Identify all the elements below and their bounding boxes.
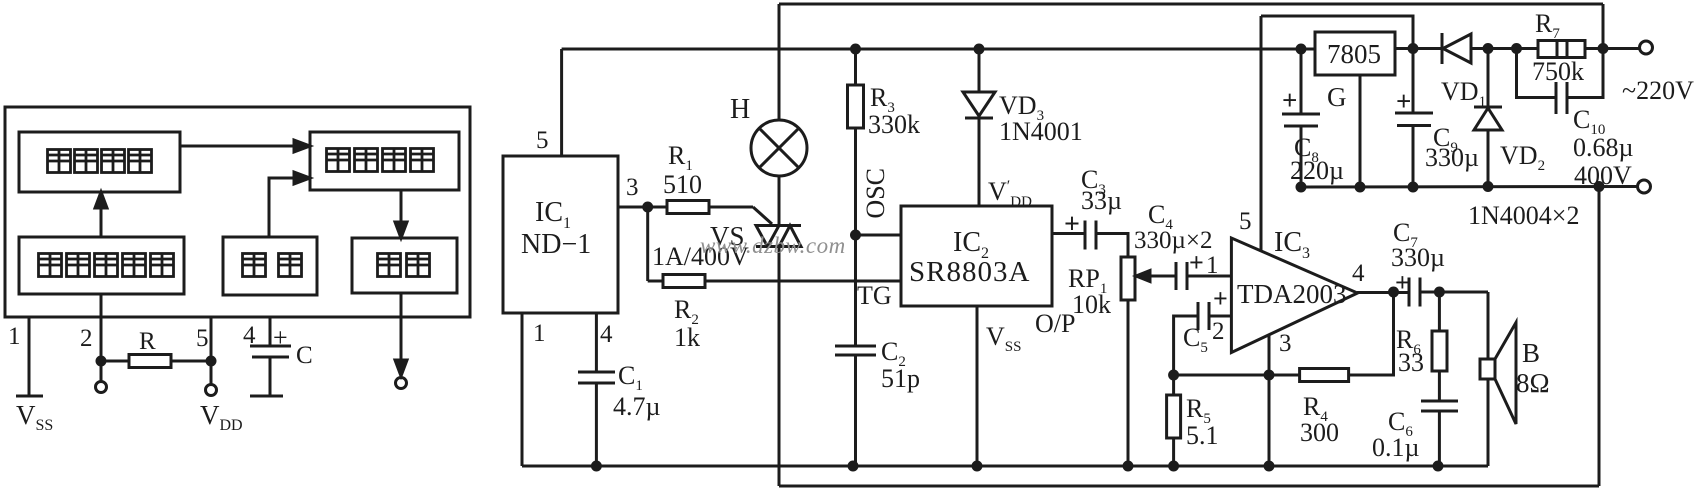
7805 G pin wire <box>1359 75 1362 187</box>
pin 2 wire <box>100 294 103 381</box>
svg-text:10k: 10k <box>1072 290 1111 319</box>
wire lamp top <box>778 4 781 120</box>
arrow detect to output <box>400 190 403 228</box>
svg-text:+: + <box>1189 248 1204 277</box>
svg-text:7805: 7805 <box>1327 39 1381 69</box>
resistor R1 <box>648 206 667 209</box>
svg-text:1: 1 <box>533 320 546 347</box>
svg-text:VSS: VSS <box>16 400 53 434</box>
node R5 top <box>1170 371 1178 379</box>
svg-text:2: 2 <box>1212 318 1225 345</box>
PSU top edge wire <box>1261 16 1413 48</box>
node frame-neutral <box>1595 183 1603 191</box>
pin 1 wire <box>28 317 31 396</box>
svg-text:330µ: 330µ <box>1425 143 1479 172</box>
5V rail wire <box>562 48 1315 51</box>
svg-text:220µ: 220µ <box>1290 156 1344 185</box>
block 传感元件 <box>19 132 180 192</box>
resistor R7 <box>1517 47 1539 50</box>
node pin3-R4 <box>1265 371 1273 379</box>
svg-text:0.68µ: 0.68µ <box>1573 133 1634 162</box>
capacitor C10 branch <box>1517 49 1557 98</box>
svg-text:2: 2 <box>80 325 93 352</box>
node C8 bottom <box>1297 183 1305 191</box>
output terminal wire <box>400 293 403 374</box>
resistor R5 <box>1172 375 1175 395</box>
svg-text:51p: 51p <box>881 364 920 393</box>
node R4 output <box>1390 288 1398 296</box>
svg-text:33µ: 33µ <box>1081 186 1122 215</box>
pin 2 terminal <box>96 382 107 393</box>
svg-text:4: 4 <box>1352 260 1365 287</box>
IC1 pin1 wire <box>521 313 524 466</box>
resistor R6 <box>1438 292 1441 331</box>
node C6 gnd <box>1434 462 1442 470</box>
IC1 pin4 wire <box>595 313 598 372</box>
node OSC <box>852 231 860 239</box>
svg-text:VSS: VSS <box>986 322 1021 355</box>
node R7 left <box>1513 45 1521 53</box>
frame right edge lower <box>1598 187 1601 486</box>
svg-text:+: + <box>1395 268 1410 297</box>
block 检测控制 <box>310 132 459 190</box>
block 输出 <box>352 238 457 293</box>
svg-text:330k: 330k <box>868 110 920 139</box>
IC1 pin5 wire <box>560 49 563 156</box>
svg-text:4: 4 <box>243 322 256 349</box>
svg-text:1: 1 <box>1206 252 1219 279</box>
wire R5 to pin3 <box>1174 374 1269 377</box>
resistor R3 <box>854 49 857 85</box>
svg-text:4: 4 <box>600 321 613 348</box>
node C2 gnd <box>849 462 857 470</box>
svg-text:400V: 400V <box>1574 161 1632 190</box>
diode VD2 <box>1484 45 1492 53</box>
svg-text:1N4001: 1N4001 <box>999 117 1083 146</box>
capacitor C3 <box>1084 221 1087 250</box>
svg-text:VD2: VD2 <box>1500 141 1545 174</box>
ground rail <box>522 465 1488 468</box>
svg-text:3: 3 <box>626 174 639 201</box>
svg-text:B: B <box>1522 338 1540 368</box>
IC2 box <box>901 206 1052 306</box>
svg-text:33: 33 <box>1398 348 1424 377</box>
svg-text:1N4004×2: 1N4004×2 <box>1468 201 1579 230</box>
svg-text:ND−1: ND−1 <box>521 229 591 260</box>
block 延时 <box>223 237 317 295</box>
svg-text:TDA2003: TDA2003 <box>1237 279 1347 309</box>
frame right edge upper <box>1602 4 1605 48</box>
wire triac to frame bottom <box>778 247 781 487</box>
arrow sensor to detect <box>180 145 298 148</box>
node pin2-R <box>97 357 105 365</box>
svg-text:O/P: O/P <box>1035 309 1075 338</box>
capacitor C6 <box>1421 400 1458 403</box>
pin 4 wire <box>269 317 272 346</box>
node R3 top <box>852 45 860 53</box>
wire IC2 output <box>1052 232 1085 235</box>
svg-text:R: R <box>139 328 156 355</box>
svg-text:4.7µ: 4.7µ <box>613 392 661 421</box>
node C1 gnd <box>592 462 600 470</box>
svg-text:C: C <box>296 342 313 369</box>
svg-text:C5: C5 <box>1183 323 1208 356</box>
svg-text:G: G <box>1327 82 1347 112</box>
svg-text:TG: TG <box>857 281 892 310</box>
svg-text:+: + <box>1282 85 1297 115</box>
capacitor C9 <box>1412 48 1415 113</box>
svg-text:1k: 1k <box>674 323 700 352</box>
wire lamp to triac <box>778 176 781 225</box>
node R5 gnd <box>1170 462 1178 470</box>
svg-text:+: + <box>1396 86 1411 116</box>
node R6 top <box>1435 288 1443 296</box>
svg-text:www.dzbw.com: www.dzbw.com <box>700 233 846 258</box>
TDA pin5 riser <box>1260 16 1263 252</box>
node pin3 <box>644 203 652 211</box>
capacitor C7 <box>1408 278 1411 307</box>
node C9 bottom <box>1409 183 1417 191</box>
svg-text:+: + <box>273 323 288 352</box>
IC1 box <box>503 156 618 313</box>
svg-text:750k: 750k <box>1532 57 1584 86</box>
RP1 wiper arrow <box>1142 275 1162 278</box>
block diagram outer box <box>5 107 470 317</box>
pin 5 terminal <box>206 385 217 396</box>
triac VS <box>756 226 779 247</box>
pin 5 wire <box>210 317 213 384</box>
op-amp IC3 TDA2003 <box>1231 238 1357 353</box>
svg-text:3: 3 <box>1279 330 1292 357</box>
wire TG <box>705 280 901 283</box>
svg-text:5: 5 <box>536 127 549 154</box>
terminal ~220V <box>1640 41 1653 54</box>
text 传感元件 <box>48 150 152 173</box>
node pin3 gnd <box>1265 462 1273 470</box>
svg-text:8Ω: 8Ω <box>1516 368 1550 398</box>
capacitor C1 <box>578 371 615 374</box>
node C9 top <box>1409 45 1417 53</box>
arrow delay to detect <box>269 178 298 237</box>
IC1 pin3 wire <box>618 206 648 209</box>
svg-text:5.1: 5.1 <box>1186 421 1219 450</box>
speaker B <box>1487 292 1490 359</box>
resistor R4 <box>1269 374 1300 377</box>
svg-text:SR8803A: SR8803A <box>909 256 1030 288</box>
svg-text:V′DD: V′DD <box>988 177 1032 210</box>
svg-text:H: H <box>730 94 750 125</box>
node pin5-R <box>207 357 215 365</box>
node C8 top <box>1297 45 1305 53</box>
node Vss gnd <box>973 462 981 470</box>
potentiometer RP1 <box>1121 257 1135 300</box>
capacitor C5 <box>1209 315 1231 318</box>
node G <box>1356 183 1364 191</box>
IC2 Vss wire <box>976 306 979 466</box>
resistor R (block) <box>101 360 129 363</box>
capacitor C8 <box>1300 49 1303 114</box>
terminal 400V <box>1638 180 1651 193</box>
text 输出 <box>378 254 430 277</box>
block 灵敏度限制 <box>19 237 184 294</box>
neutral 400V line <box>1301 185 1637 189</box>
svg-text:300: 300 <box>1300 418 1339 447</box>
svg-text:510: 510 <box>663 170 702 199</box>
svg-text:C1: C1 <box>618 361 643 394</box>
text 灵敏度限制 <box>39 254 174 277</box>
svg-text:IC3: IC3 <box>1274 227 1310 262</box>
text 检测控制 <box>327 149 434 172</box>
node VD3 top <box>975 45 983 53</box>
svg-text:VDD: VDD <box>200 400 243 434</box>
node AC right <box>1599 45 1607 53</box>
diode VD1 <box>1395 47 1442 50</box>
svg-text:IC1: IC1 <box>535 197 571 232</box>
capacitor C2 <box>835 345 876 348</box>
lamp H <box>751 120 807 176</box>
svg-text:VD1: VD1 <box>1441 77 1486 110</box>
TDA pin3 wire <box>1268 334 1271 466</box>
svg-text:+: + <box>1064 209 1080 240</box>
regulator 7805 box <box>1315 32 1395 75</box>
resistor R2 <box>648 280 663 283</box>
svg-text:5: 5 <box>1239 208 1252 235</box>
capacitor C4 <box>1162 275 1176 278</box>
node RP1 gnd <box>1124 462 1132 470</box>
svg-text:0.1µ: 0.1µ <box>1372 433 1420 462</box>
wire OSC <box>856 234 902 237</box>
frame bottom edge <box>779 485 1599 488</box>
svg-text:~220V: ~220V <box>1622 76 1694 105</box>
svg-text:R7: R7 <box>1535 9 1560 42</box>
ground Vss bar <box>16 395 43 398</box>
node VD2 bottom <box>1484 183 1492 191</box>
svg-text:5: 5 <box>196 325 209 352</box>
wire gate diagonal <box>753 207 772 224</box>
diode VD3 <box>978 49 981 92</box>
capacitor C (block) <box>250 345 291 348</box>
svg-text:OSC: OSC <box>861 168 890 219</box>
svg-text:1: 1 <box>8 323 21 350</box>
wire TDA output <box>1357 291 1409 294</box>
ground C bar <box>250 395 283 398</box>
frame top edge <box>779 3 1603 6</box>
svg-text:+: + <box>1213 284 1228 313</box>
arrow limit to sensor <box>100 202 103 237</box>
text 延时 <box>243 254 302 277</box>
